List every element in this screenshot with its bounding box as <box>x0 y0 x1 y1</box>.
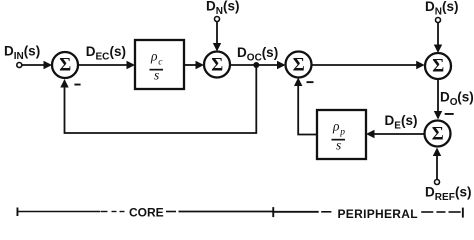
svg-text:Σ: Σ <box>432 57 444 77</box>
label D_O(s) <box>440 90 474 109</box>
node D_OC <box>253 62 259 68</box>
terminal D_IN input <box>17 63 22 68</box>
svg-text:ρ: ρ <box>332 119 340 134</box>
minus sign at S3 feedback input <box>307 81 314 83</box>
svg-text:Σ: Σ <box>59 56 71 76</box>
svg-text:D: D <box>440 90 450 105</box>
minus sign at S1 feedback input <box>74 84 80 86</box>
svg-text:D: D <box>237 45 247 60</box>
wire D_REF to S5 <box>433 148 441 180</box>
svg-text:CORE: CORE <box>129 206 164 220</box>
svg-text:OC: OC <box>247 53 262 64</box>
wire D_IN to S1 <box>22 61 52 69</box>
wire D_N to S2 <box>213 22 221 52</box>
terminal D_N core <box>215 17 220 22</box>
svg-text:Σ: Σ <box>293 55 305 75</box>
svg-text:D: D <box>385 113 395 128</box>
label D_REF(s) <box>425 185 472 204</box>
summing junction S1 <box>52 52 78 78</box>
svg-text:(s): (s) <box>457 90 474 105</box>
svg-text:Σ: Σ <box>211 55 223 75</box>
svg-text:(s): (s) <box>455 185 472 200</box>
label D_E(s) <box>385 113 418 132</box>
svg-text:Σ: Σ <box>432 124 444 144</box>
summing junction S3 <box>286 52 312 78</box>
svg-text:D: D <box>425 0 435 14</box>
svg-text:s: s <box>154 68 159 83</box>
terminal D_N peripheral <box>436 18 441 23</box>
core bracket line <box>17 207 275 217</box>
wire S1 to block rho_c <box>78 61 135 69</box>
svg-text:(s): (s) <box>110 44 127 59</box>
svg-text:D: D <box>206 0 216 14</box>
wire S2 to S3 <box>230 61 286 69</box>
svg-text:(s): (s) <box>401 113 418 128</box>
svg-text:p: p <box>339 128 345 138</box>
svg-text:IN: IN <box>14 51 24 62</box>
label D_N(s) peripheral noise <box>425 0 459 18</box>
wire rho_c to S2 <box>184 61 204 69</box>
svg-text:EC: EC <box>96 52 110 63</box>
svg-text:D: D <box>4 44 14 59</box>
svg-text:ρ: ρ <box>150 49 158 64</box>
summing junction S4 <box>425 53 451 79</box>
label D_N(s) core noise <box>206 0 240 17</box>
label D_EC(s) <box>86 44 126 63</box>
summing junction S2 <box>204 52 230 78</box>
label D_OC(s) <box>237 45 278 64</box>
svg-text:N: N <box>216 6 223 17</box>
svg-text:REF: REF <box>435 192 455 203</box>
minus sign at S5 top input <box>445 113 454 115</box>
svg-text:D: D <box>86 44 96 59</box>
svg-text:s: s <box>336 138 341 153</box>
wire S4 to S5 <box>434 79 442 120</box>
wire D_OC feedback to S1 <box>60 65 256 133</box>
wire rho_p to S3 feedback <box>294 78 317 135</box>
svg-text:(s): (s) <box>442 0 459 14</box>
svg-text:D: D <box>425 185 435 200</box>
peripheral bracket line <box>274 208 464 218</box>
block rho_c/s <box>135 40 184 89</box>
svg-text:(s): (s) <box>223 0 240 14</box>
svg-text:PERIPHERAL: PERIPHERAL <box>338 207 418 221</box>
svg-text:(s): (s) <box>24 44 41 59</box>
wire S3 to S4 <box>312 61 425 69</box>
svg-text:(s): (s) <box>262 45 279 60</box>
summing junction S5 <box>425 121 451 147</box>
wire D_N to S4 <box>434 23 442 54</box>
label D_IN(s) <box>4 44 40 63</box>
terminal D_REF <box>435 180 440 185</box>
wire S5 to rho_p block (D_E) <box>366 130 425 138</box>
svg-text:N: N <box>435 7 442 18</box>
block rho_p/s <box>317 110 366 159</box>
